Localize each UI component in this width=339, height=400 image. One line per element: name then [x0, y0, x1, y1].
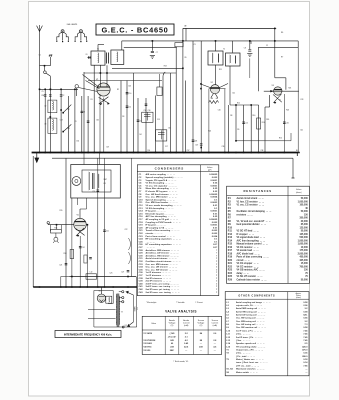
wire T1 left plate lead	[87, 57, 91, 59]
svg-text:2nd IF trimmers ... ... ...: 2nd IF trimmers ... ... ...	[146, 277, 172, 280]
valve analysis col rule 178.8	[178, 316, 180, 354]
wire T1 link top	[121, 41, 123, 50]
wire vert 2436	[243, 105, 245, 153]
svg-text:1st IF trimmers ... ... ...: 1st IF trimmers ... ... ...	[146, 274, 171, 277]
svg-text:A/E series coupling ... ...: A/E series coupling ... ... ...	[146, 173, 176, 176]
capacitor C7	[151, 51, 154, 52]
junction bus x228.6	[228, 152, 230, 154]
svg-text:IF stopper ... ...: IF stopper ... ...	[237, 233, 255, 236]
junction bus x94.2	[93, 152, 95, 154]
svg-text:0.002: 0.002	[212, 177, 218, 179]
svg-text:C23: C23	[59, 264, 62, 266]
terminal L12	[122, 326, 124, 328]
svg-text:Coupling to PU/V3 anode ...: Coupling to PU/V3 anode ... ... ...	[146, 221, 182, 224]
other components table rows	[226, 301, 308, 374]
svg-text:R14: R14	[262, 122, 265, 124]
V5 cathode cross	[76, 228, 85, 236]
svg-text:R26: R26	[228, 279, 233, 281]
V1 leg left	[99, 94, 101, 153]
resistor R13 zigzag	[209, 101, 219, 104]
svg-text:C29: C29	[106, 147, 109, 149]
svg-text:Osc. osc. MW trimmer ... ...: Osc. osc. MW trimmer ... ... ...	[146, 263, 178, 266]
svg-text:Cathode bias resistor ... ..: Cathode bias resistor ... ...	[237, 278, 267, 281]
V6 internal electrodes	[99, 297, 105, 302]
valve analysis col rule 193.7	[193, 316, 195, 354]
svg-text:Mains switch ... ... ...: Mains switch ... ... ...	[236, 371, 258, 374]
capacitor C2	[60, 95, 63, 96]
wire t3 link 1	[88, 308, 116, 310]
svg-text:R25: R25	[228, 276, 233, 278]
svg-text:circuits ... ... ...: circuits ... ... ...	[146, 232, 163, 235]
resistances table rows	[228, 197, 309, 281]
junction bus x258.6	[258, 152, 260, 154]
V1 grid chord	[98, 90, 110, 92]
resistor R19 box	[84, 255, 87, 263]
svg-text:... ... ...: ... ... ...	[146, 247, 156, 249]
svg-text:50,000: 50,000	[301, 198, 309, 200]
dial lamp 1 left foot	[56, 41, 57, 42]
svg-text:1st IF trans. { Pri. ... ..: 1st IF trans. { Pri. ... ... ...	[236, 329, 262, 332]
wire vert 193	[192, 41, 194, 153]
wire vert 2696	[269, 95, 271, 107]
svg-text:R15: R15	[60, 210, 63, 212]
jack J1	[54, 237, 58, 241]
svg-text:V4 CG resistor ... ...: V4 CG resistor ... ...	[237, 265, 260, 268]
svg-text:rejector coils, Pri. ... ...: rejector coils, Pri. ... ... ...	[236, 304, 263, 307]
svg-text:{ Sec. ... ... ...: { Sec. ... ... ...	[236, 334, 251, 336]
valve V1 envelope	[97, 83, 110, 96]
junction ht x80.2	[80, 286, 81, 287]
svg-text:V6: V6	[99, 291, 101, 293]
svg-text:T2: T2	[223, 49, 225, 51]
svg-text:Electrode by-pass ... ... .: Electrode by-pass ... ... ...	[146, 212, 174, 215]
V1 pin 1	[99, 84, 101, 88]
junction bus x127	[126, 152, 128, 154]
junction ht x66	[65, 286, 66, 287]
svg-text:R8: R8	[230, 115, 232, 117]
V2 diag right	[218, 84, 228, 89]
svg-text:V3 anode load ... ...: V3 anode load ... ...	[237, 250, 259, 252]
svg-text:C9: C9	[75, 121, 77, 123]
svg-text:350,000: 350,000	[299, 218, 308, 220]
svg-text:R4: R4	[140, 134, 142, 136]
svg-text:0.004: 0.004	[212, 235, 218, 238]
svg-text:C7: C7	[156, 52, 158, 54]
junction bus x146	[145, 152, 147, 154]
dial lamp 2 bulb	[79, 30, 82, 33]
svg-text:R11: R11	[228, 231, 233, 233]
svg-text:delay ... ...: delay ... ...	[237, 273, 250, 275]
wire vert 2843	[283, 94, 285, 153]
svg-text:{ Tuned†: { Tuned†	[168, 336, 177, 338]
junction bus x236	[235, 152, 237, 154]
junction bus x88.1	[87, 152, 89, 154]
grid cap terminal	[75, 85, 78, 88]
svg-text:Aerial/osc. SW trimmer ... .: Aerial/osc. SW trimmer ... ... ...	[146, 254, 179, 257]
svg-text:C10: C10	[128, 93, 131, 95]
output transformer inner box	[82, 170, 111, 192]
junction c8	[249, 40, 251, 42]
svg-text:{ HT sec., total ... ... ..: { HT sec., total ... ... ...	[236, 364, 259, 367]
svg-text:Parts of bias correcting ...: Parts of bias correcting ... ...	[237, 256, 269, 259]
svg-text:Tuned of line correcting ...: Tuned of line correcting ... ... ...	[146, 229, 180, 232]
wire trimmer drop	[159, 74, 161, 87]
wire osc rail 2	[112, 67, 183, 69]
earth return rail	[52, 157, 293, 159]
svg-text:100,000: 100,000	[299, 205, 308, 207]
svg-text:125,000: 125,000	[299, 227, 308, 229]
wire vert 775 box	[77, 198, 79, 205]
svg-text:2nd IF trans. { Pri. ... ...: 2nd IF trans. { Pri. ... ... ...	[236, 336, 263, 339]
wire vert 2748	[274, 28, 276, 77]
heater winding	[108, 297, 111, 302]
capacitor C27	[127, 271, 130, 272]
wire R16 drop	[56, 225, 58, 230]
dial lamp 2 right leg	[82, 32, 87, 40]
wire V5 anode up	[79, 209, 81, 218]
wire anode feed	[84, 72, 176, 74]
wire T1 pri top2	[98, 44, 104, 46]
IF transformer T2 primary box	[208, 51, 223, 65]
svg-text:R24: R24	[208, 131, 211, 133]
svg-text:R1: R1	[91, 99, 93, 101]
wire vert 2512	[250, 105, 252, 153]
dial lamp 1 bulb	[61, 30, 64, 33]
dial lamp 2 left foot	[75, 41, 76, 42]
svg-text:Osc. osc. LW trimmer ... ...: Osc. osc. LW trimmer ... ... ...	[146, 266, 178, 269]
svg-text:R21: R21	[228, 263, 233, 265]
wire DW terminal drop	[49, 57, 51, 66]
svg-text:2nd IF trans. sec. tuning ...: 2nd IF trans. sec. tuning ... ... ...	[146, 291, 181, 294]
wire T1 down1	[99, 65, 101, 83]
dial lamp 2 centre foot	[80, 41, 81, 42]
main HT bus	[33, 286, 137, 288]
svg-text:R16: R16	[55, 228, 58, 230]
svg-text:Osc. SW tuning coil ... ...: Osc. SW tuning coil ... ... ...	[236, 317, 265, 320]
svg-text:700,000: 700,000	[299, 266, 308, 268]
svg-text:V3 DH63: V3 DH63	[143, 343, 152, 345]
padder box P1	[142, 112, 153, 122]
wire vertical d	[68, 96, 70, 153]
wire sm left	[61, 276, 70, 278]
svg-text:C36: C36	[147, 150, 150, 152]
wire V3 top hook b	[285, 78, 287, 90]
wire vert 121	[120, 81, 122, 153]
capacitor C1A	[44, 95, 47, 96]
valve V6 rectifier envelope	[97, 294, 105, 302]
V5 grid chord	[75, 224, 85, 226]
svg-text:Osc. LW fixed trimmer ... ..: Osc. LW fixed trimmer ... ... ...	[146, 193, 179, 196]
junction det2	[250, 104, 252, 106]
junction ht x128	[127, 286, 128, 287]
svg-text:R20: R20	[228, 260, 233, 262]
svg-text:L10: L10	[90, 272, 93, 274]
svg-text:(V): (V)	[171, 325, 174, 327]
wire vert 186	[185, 28, 187, 41]
T1 core bar b	[107, 53, 109, 64]
svg-text:L2: L2	[45, 106, 47, 108]
wire switch out	[49, 76, 51, 89]
wire HT top rail	[183, 27, 276, 29]
wire rect right	[112, 291, 114, 304]
capacitor C23	[65, 264, 68, 265]
V1 heater leg	[103, 98, 105, 153]
junction bus x61.1	[60, 152, 62, 154]
wire V5 anode link	[80, 208, 87, 210]
junction r2	[274, 40, 276, 42]
svg-text:C31: C31	[168, 128, 171, 130]
V2 anode bar	[211, 87, 219, 89]
svg-text:Part of tone control ... ...: Part of tone control ... ... ...	[146, 235, 176, 238]
capacitor C3	[81, 111, 84, 112]
output transformer core b	[93, 173, 95, 189]
wire speaker drop 2	[99, 153, 101, 165]
junction bus x45.2	[44, 152, 46, 154]
svg-text:R12: R12	[228, 234, 233, 236]
svg-text:Speaker speech coil ... ...: Speaker speech coil ... ... ...	[236, 342, 265, 345]
output transformer winding 2	[98, 174, 99, 188]
wire jack stem	[55, 233, 57, 237]
svg-text:R18: R18	[64, 253, 67, 255]
wire tap 1	[119, 291, 122, 293]
svg-text:R E S I S T A N C E S: R E S I S T A N C E S	[243, 189, 271, 193]
svg-text:Osc. MW fixed tracker ... ..: Osc. MW fixed tracker ... ... ...	[146, 201, 178, 204]
wire vertical e	[74, 89, 76, 152]
svg-text:C2: C2	[62, 95, 64, 97]
svg-text:20,000: 20,000	[301, 221, 309, 223]
junction c19	[200, 147, 202, 149]
svg-text:V1 SG decoupling ... ... ..: V1 SG decoupling ... ... ...	[146, 183, 174, 185]
svg-text:V2 SG HT feed ... ...: V2 SG HT feed ... ...	[237, 231, 260, 233]
dial lamp 2 left leg	[75, 32, 80, 40]
svg-text:R11: R11	[219, 69, 222, 71]
wire vert 865 box	[86, 198, 88, 209]
svg-text:IF by-pass ... ... ...: IF by-pass ... ... ...	[146, 211, 166, 213]
wire vert 2586	[258, 105, 260, 153]
switch S2 blade	[63, 124, 71, 131]
wire switch stem	[44, 66, 46, 71]
svg-text:Osc. SW reaction coil ... ..: Osc. SW reaction coil ... ... ...	[236, 326, 266, 329]
wire V5 cath down	[79, 236, 81, 287]
wire C7 drop	[151, 41, 153, 51]
wire vert 2156 v2	[215, 65, 217, 85]
V5 cathode arrow	[77, 235, 79, 237]
svg-text:R9: R9	[237, 129, 239, 131]
svg-text:Aerial/osc. MW trimmer ... .: Aerial/osc. MW trimmer ... ... ...	[146, 249, 180, 252]
capacitor C14	[242, 122, 245, 123]
svg-text:R7: R7	[281, 57, 283, 59]
svg-text:R3: R3	[122, 116, 124, 118]
wire det low rail	[265, 106, 270, 108]
wire V5 grid line	[48, 224, 74, 226]
svg-text:L3: L3	[45, 124, 47, 126]
speaker cone inner	[75, 179, 78, 182]
condensers header rule	[137, 171, 219, 173]
svg-text:RF smoothing capacitors ...: RF smoothing capacitors ... ... ...	[146, 238, 182, 241]
svg-text:circuit ... ...: circuit ... ...	[237, 259, 251, 262]
wire diode down	[249, 58, 251, 78]
svg-text:{ 145: { 145	[170, 332, 176, 335]
junction bus x74.9	[74, 152, 76, 154]
svg-text:0.0001: 0.0001	[210, 180, 217, 182]
svg-text:35,000: 35,000	[301, 224, 309, 226]
svg-text:V2 SG decoupling ... ... ..: V2 SG decoupling ... ... ...	[146, 208, 174, 210]
svg-text:V3 CG resistor ... ...: V3 CG resistor ... ...	[237, 246, 260, 249]
svg-text:C O N D E N S E R S: C O N D E N S E R S	[155, 166, 184, 170]
wire vert 251	[250, 41, 252, 44]
svg-text:Values: Values	[296, 295, 301, 297]
junction tc1	[39, 89, 41, 91]
svg-text:HT smoothing capacitors ...: HT smoothing capacitors ... ... ...	[146, 243, 182, 246]
capacitor C26s	[89, 258, 92, 259]
svg-text:C42: C42	[300, 130, 303, 132]
wire T1 down2	[106, 65, 108, 83]
svg-text:{ Sec. ... ... ...: { Sec. ... ... ...	[236, 340, 251, 342]
choke box	[86, 274, 97, 279]
svg-text:INTERMEDIATE FREQUENCY 456 Kc/: INTERMEDIATE FREQUENCY 456 Kc/s.	[64, 333, 113, 337]
svg-text:3rd IF trans. pri. tuning ...: 3rd IF trans. pri. tuning ... ... ...	[146, 282, 179, 285]
junction r1	[274, 28, 276, 30]
dial lamp 1 right leg	[64, 32, 69, 40]
IF transformer T2 secondary box	[226, 53, 241, 66]
svg-text:AVC diode load ... ...: AVC diode load ... ...	[237, 252, 261, 255]
junction bus x138	[137, 152, 139, 154]
svg-text:V1 osc. CG resistor ... ...: V1 osc. CG resistor ... ...	[237, 204, 265, 207]
IF pointer bracket	[129, 238, 131, 264]
speaker cone circle	[72, 177, 81, 186]
svg-text:V2 KTW61M: V2 KTW61M	[143, 340, 155, 342]
junction g1	[56, 224, 58, 226]
svg-text:Osc. MW tuning coil ... ...: Osc. MW tuning coil ... ... ...	[236, 320, 265, 323]
mains switch arrow top	[126, 291, 133, 295]
svg-text:S2: S2	[68, 109, 70, 111]
output transformer winding 1	[89, 172, 90, 190]
capacitor C11	[126, 106, 129, 107]
wire vert 1313	[130, 158, 132, 276]
caption box	[55, 331, 121, 338]
junction left4	[50, 116, 52, 118]
HT decoupling drop	[296, 153, 298, 157]
valve analysis col rule 165.2	[164, 316, 166, 354]
svg-text:IF shunts RF by-pass ... ...: IF shunts RF by-pass ... ... ...	[146, 190, 178, 193]
wire vertical b	[49, 89, 51, 152]
svg-text:S3: S3	[68, 128, 70, 130]
wire rect left	[93, 291, 95, 328]
V1 pointer diagonal 3	[83, 75, 99, 87]
T3 core a	[116, 294, 118, 328]
resistances column rule	[287, 186, 289, 283]
svg-text:R26: R26	[286, 110, 289, 112]
IF transformer T1 primary box	[91, 51, 105, 65]
V3 grid arrow	[271, 90, 274, 92]
junction bus x208.9	[208, 152, 210, 154]
switch S1 blade	[63, 105, 71, 113]
svg-text:Aerial coupling and image ...: Aerial coupling and image ... ... ...	[236, 301, 271, 304]
svg-text:Wave filter decoupling ... .: Wave filter decoupling ... ... ...	[146, 187, 179, 190]
junction c7	[152, 40, 154, 42]
V2 plate line	[209, 88, 226, 90]
svg-text:C15: C15	[157, 119, 160, 121]
junction left2	[60, 89, 62, 91]
wire vert 1556	[155, 96, 157, 153]
junction ht x97.8	[97, 286, 98, 287]
svg-text:R10: R10	[228, 227, 233, 229]
valve V5 envelope	[74, 218, 86, 230]
svg-text:625.: 625.	[303, 315, 307, 317]
valve analysis header rule	[142, 329, 221, 331]
svg-text:C16: C16	[286, 123, 289, 125]
capacitor C19b	[200, 144, 203, 145]
dial lamp 1 left leg	[57, 32, 62, 40]
svg-text:R16: R16	[228, 247, 233, 249]
svg-text:C5: C5	[42, 91, 44, 93]
svg-text:50,000: 50,000	[301, 279, 309, 281]
heater winding box	[106, 296, 112, 303]
svg-text:425,000: 425,000	[299, 259, 308, 262]
svg-text:1,000,000: 1,000,000	[298, 240, 309, 242]
svg-text:C17: C17	[165, 146, 168, 148]
svg-text:C2: C2	[266, 45, 268, 47]
svg-text:D/W: D/W	[49, 55, 53, 57]
pickup terminal	[47, 222, 49, 224]
T2 secondary winding	[230, 55, 231, 63]
svg-text:175,000: 175,000	[299, 250, 308, 252]
junction bus x243.6	[243, 152, 245, 154]
capacitor C20	[97, 190, 100, 191]
svg-text:C1: C1	[39, 55, 41, 57]
svg-text:V4 SG HT resistor ... ...: V4 SG HT resistor ... ...	[237, 275, 263, 278]
svg-text:AVC line decoupling ... ...: AVC line decoupling ... ...	[237, 239, 266, 242]
svg-text:R23: R23	[228, 270, 233, 272]
capacitor C4	[87, 121, 90, 122]
svg-text:† Variable.: † Variable.	[176, 301, 185, 304]
wire vert 978	[97, 158, 99, 287]
svg-text:Waveband switches ... ... .: Waveband switches ... ... ...	[236, 368, 265, 371]
smoothing rail upper	[69, 276, 136, 278]
junction ht x113.2	[113, 286, 114, 287]
svg-text:0.002: 0.002	[212, 222, 218, 224]
padder trimmer marks	[144, 113, 151, 121]
mains tap terminal 1	[122, 291, 124, 293]
T2 core bar	[218, 54, 220, 63]
junction ht x39.5	[39, 286, 40, 287]
svg-text:(mA): (mA)	[213, 324, 218, 327]
svg-text:V1 X41M: V1 X41M	[143, 332, 152, 335]
antenna symbol	[37, 25, 43, 32]
svg-text:10,000: 10,000	[301, 247, 309, 249]
coil L3 winding	[52, 119, 53, 130]
mains tap terminal 3	[122, 301, 124, 303]
earth rail terminal	[292, 177, 295, 179]
svg-text:... ... ...: ... ... ...	[146, 241, 156, 243]
svg-text:V2: V2	[211, 82, 213, 84]
svg-text:† Both anode, V1.: † Both anode, V1.	[173, 360, 189, 363]
wire tap 2	[119, 297, 122, 299]
wire vert 258 v3	[257, 47, 259, 91]
wire avc line	[236, 140, 291, 142]
V1 pin 2	[106, 84, 108, 88]
junction t183b	[182, 68, 184, 70]
wire det rail	[230, 104, 259, 106]
svg-text:(V): (V)	[200, 325, 203, 327]
svg-text:C18: C18	[194, 140, 197, 142]
wire t3 link 2	[88, 318, 116, 320]
wire vertical g	[87, 96, 89, 153]
earth symbol C8	[247, 54, 252, 57]
wire vert 265	[264, 107, 266, 153]
svg-text:R16: R16	[279, 138, 282, 140]
wire vert 2155 top	[215, 41, 217, 51]
